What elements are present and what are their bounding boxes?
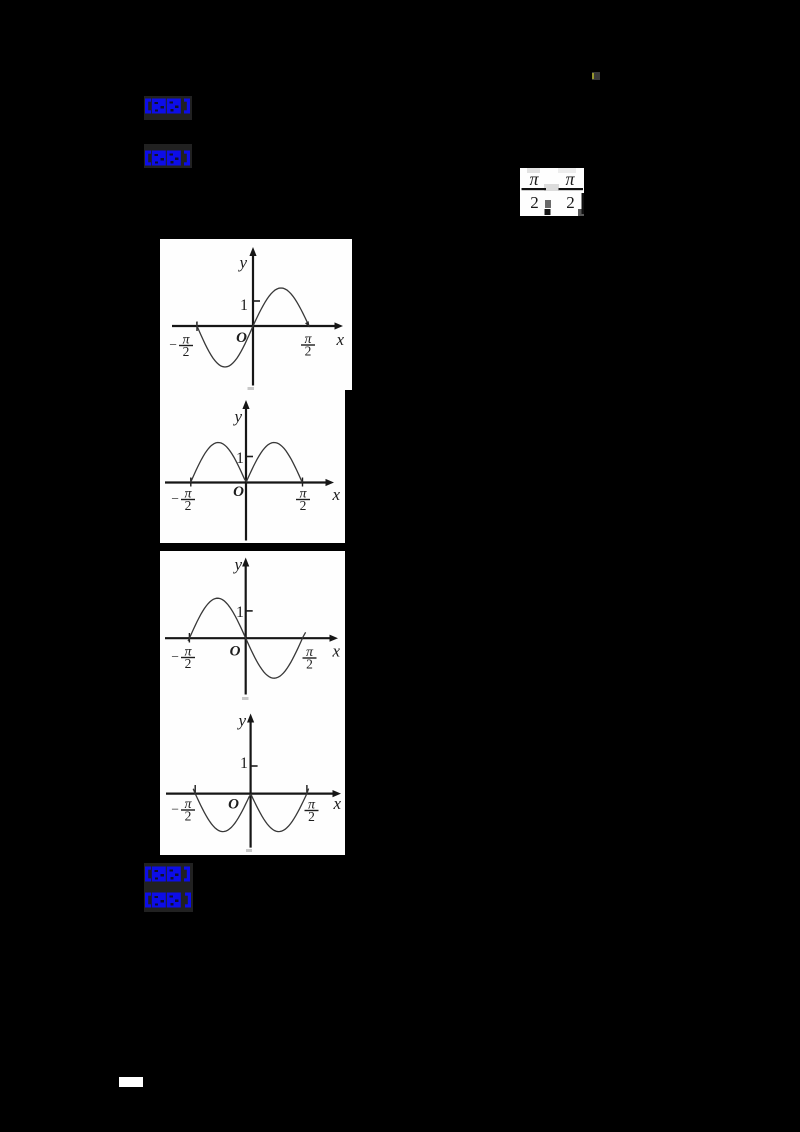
axis end smudge bbox=[246, 849, 252, 852]
svg-text:O: O bbox=[228, 797, 239, 813]
bracket sliver right bbox=[578, 209, 584, 216]
svg-text:O: O bbox=[233, 484, 244, 500]
svg-text:2: 2 bbox=[185, 498, 192, 513]
svg-text:2: 2 bbox=[185, 656, 192, 671]
svg-text:2: 2 bbox=[300, 498, 307, 513]
axis end smudge bbox=[242, 697, 249, 700]
svg-text:−: − bbox=[169, 337, 177, 352]
svg-text:2: 2 bbox=[185, 809, 192, 824]
curve y=-sin2x bbox=[188, 598, 306, 678]
svg-text:−: − bbox=[171, 649, 179, 664]
axes bbox=[166, 792, 335, 794]
tick pi/2 bbox=[302, 478, 304, 487]
svg-text:1: 1 bbox=[240, 755, 248, 772]
tick -pi/2 bbox=[194, 785, 196, 794]
svg-text:π: π bbox=[529, 169, 539, 189]
svg-text:x: x bbox=[331, 642, 340, 661]
comma bbox=[545, 200, 551, 208]
svg-text:−: − bbox=[171, 491, 179, 506]
svg-text:1: 1 bbox=[236, 604, 244, 621]
formula box [-pi/2, pi/2] bbox=[520, 168, 584, 216]
curve end arrow bbox=[305, 321, 310, 327]
svg-text:x: x bbox=[331, 485, 340, 504]
tick -pi/2 bbox=[188, 633, 190, 643]
small white rect bottom left bbox=[119, 1077, 143, 1087]
svg-text:2: 2 bbox=[308, 809, 315, 824]
svg-text:y: y bbox=[232, 555, 242, 574]
svg-text:O: O bbox=[236, 330, 247, 346]
selection smudges bbox=[527, 168, 540, 173]
svg-text:2: 2 bbox=[566, 193, 575, 212]
svg-text:π: π bbox=[565, 169, 575, 189]
curve y=|sin2x| bbox=[191, 443, 303, 483]
svg-text:y: y bbox=[232, 407, 242, 426]
tick -pi/2 bbox=[196, 322, 198, 332]
axes bbox=[172, 325, 337, 327]
answer label box 2 bbox=[144, 144, 192, 168]
svg-text:y: y bbox=[236, 711, 246, 730]
tick pi/2 bbox=[306, 785, 308, 794]
tick -pi/2 bbox=[190, 478, 192, 487]
graph 4 white box: y=-|sin2x| bbox=[160, 703, 345, 855]
svg-text:x: x bbox=[332, 794, 341, 813]
svg-text:O: O bbox=[230, 644, 241, 660]
curve y=sin2x bbox=[197, 288, 309, 367]
svg-text:−: − bbox=[171, 802, 179, 817]
svg-text:2: 2 bbox=[305, 344, 312, 359]
answer label box 1 bbox=[144, 96, 192, 120]
axis end smudge bbox=[248, 387, 255, 390]
svg-text:2: 2 bbox=[530, 193, 539, 212]
svg-text:1: 1 bbox=[240, 297, 248, 314]
small icon top right bbox=[592, 72, 601, 81]
curve y=-|sin2x| bbox=[193, 789, 308, 832]
axes bbox=[165, 481, 328, 483]
svg-text:1: 1 bbox=[236, 450, 244, 467]
graph 2 white box: y=|sin2x| bbox=[160, 390, 345, 543]
axes bbox=[165, 637, 332, 639]
analysis label box (two lines) bbox=[144, 863, 193, 912]
graph 1 white box: y=sin2x bbox=[160, 239, 352, 390]
graph 3 white box: y=-sin2x bbox=[160, 551, 345, 703]
svg-text:x: x bbox=[335, 330, 344, 349]
svg-text:2: 2 bbox=[306, 657, 313, 672]
svg-text:y: y bbox=[237, 253, 247, 272]
svg-text:2: 2 bbox=[183, 344, 190, 359]
